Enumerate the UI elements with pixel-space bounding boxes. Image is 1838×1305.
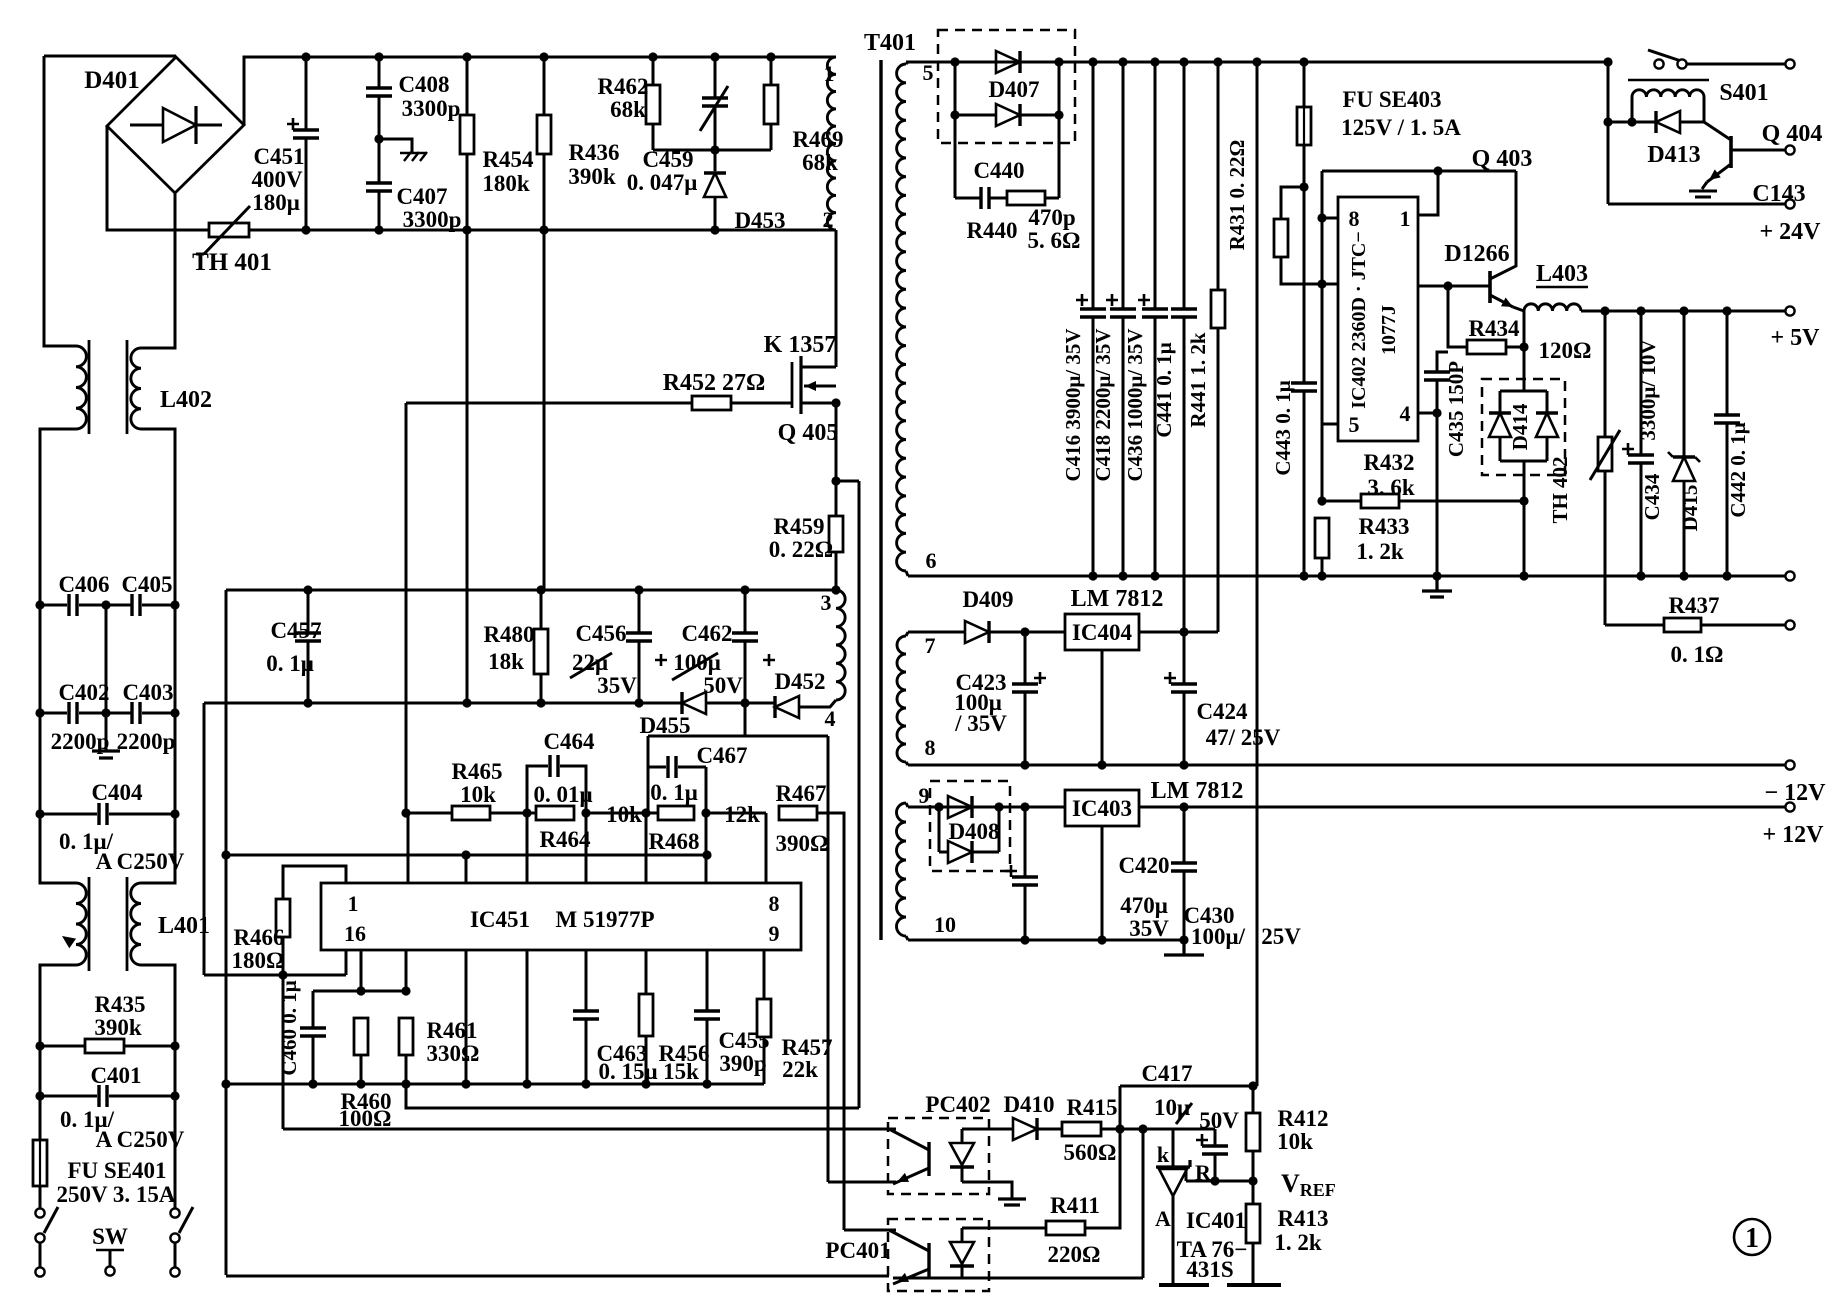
wire C420 lower lead [1024,885,1027,940]
wire R480 bottom lead [540,674,543,703]
svg-text:0. 047μ: 0. 047μ [627,170,698,195]
svg-text:SW: SW [92,1224,128,1249]
wire bus above IC451 [226,854,707,857]
svg-text:C460 0. 1μ: C460 0. 1μ [277,980,301,1075]
resistor R462 [646,85,660,124]
wire R454 node down to D455 bus [466,230,469,703]
svg-text:125V / 1. 5A: 125V / 1. 5A [1341,115,1461,140]
junction pin1 at B+ line [1433,166,1442,175]
junction C456 top [634,585,643,594]
wire to PC401 collector [844,1229,896,1232]
diode D409 [965,621,989,643]
led PC401 anode lead [961,1228,964,1242]
wire R464 to R468 [586,812,658,815]
plus sign C420 [1005,865,1017,877]
terminal Q404 base C143 [1785,145,1794,154]
wire C404 row b [109,813,175,816]
wire IC404 out [1139,631,1218,634]
chassis ground Q404 emitter [1689,182,1717,197]
svg-text:D452: D452 [774,669,825,694]
wire C402 row c [142,712,175,715]
svg-text:R454: R454 [482,147,534,172]
resistor R461 [399,1018,413,1055]
svg-text:431S: 431S [1186,1257,1233,1282]
wire inside bridge diode lead left [130,124,163,127]
plus sign C416 [1076,294,1088,306]
wire left rail R435-C401 [39,1046,42,1096]
capacitor C451 [293,130,319,138]
capacitor C416 [1080,309,1106,317]
svg-text:1: 1 [1400,206,1411,231]
wire C417 lower lead [1214,1154,1217,1181]
wire mid down [105,605,108,713]
junction lower bus x406 [401,1079,410,1088]
wire PC402 collector diagonal [889,1129,929,1150]
svg-text:R459: R459 [773,514,824,539]
wire R467 left lead to IC pin [765,813,768,883]
svg-text:D401: D401 [84,67,140,94]
junction C401 left [35,1091,44,1100]
svg-text:100Ω: 100Ω [339,1106,392,1131]
wire pin stub down 466 [465,950,468,1084]
zener D415 bar ticks [1668,452,1700,462]
junction C404 left [35,809,44,818]
wire C416 lower lead [1092,317,1095,576]
slash C456 [570,653,612,678]
wire C451 top lead [305,57,308,130]
inductor L403 [1524,304,1581,311]
svg-text:330Ω: 330Ω [427,1041,480,1066]
junction C403 right [170,708,179,717]
wire bottom long bus [226,1275,889,1278]
switch contact left bottom [35,1233,44,1242]
svg-text:C457: C457 [270,618,321,643]
capacitor C405 [132,594,140,616]
ground symbol near IC402 [1422,576,1452,597]
slash C462 [672,653,718,680]
svg-text:R413: R413 [1277,1206,1328,1231]
optocoupler PC401 emitter arrow [895,1273,909,1287]
junction C423 top [1020,627,1029,636]
capacitor C403 [132,702,140,724]
wire node up to C417 line [1119,1086,1122,1129]
wire C401 row b [109,1095,175,1098]
relay contact right [1677,59,1686,68]
svg-text:8: 8 [769,891,780,916]
junction C417 bottom at ref [1210,1176,1219,1185]
wire D414 entry [1523,379,1526,391]
svg-text:A C250V: A C250V [96,1127,185,1152]
svg-text:C451: C451 [253,144,304,169]
wire pin1 top loop [283,866,346,899]
wire D415 lower lead [1683,481,1686,576]
wire R441 upper lead [1217,62,1220,290]
junction cathode line [1138,1124,1147,1133]
junction C430 bottom [1179,935,1188,944]
transistor Q404 emitter arrow [1706,169,1721,184]
svg-text:8: 8 [1349,206,1360,231]
wire relay contact out [1687,63,1786,66]
wire C464 loop left [527,766,548,813]
capacitor C420 [1012,877,1038,885]
wire R465 to R464 [490,812,536,815]
junction C424 ground [1179,760,1188,769]
svg-text:3300p: 3300p [402,96,461,121]
junction lower bus x707 [702,1079,711,1088]
wire -12V bus [908,764,1786,767]
junction R436 top [539,52,548,61]
wire D453 bottom lead [714,197,717,230]
svg-text:C402: C402 [58,680,109,705]
junction R454 at lower bus [462,225,471,234]
wire D414 right upper [1546,391,1549,413]
svg-text:50V: 50V [1199,1108,1239,1133]
resistor R434 [1467,340,1506,354]
junction D408 right [994,802,1003,811]
wire C420 upper lead [1024,807,1027,877]
junction R433 ground [1317,571,1326,580]
svg-text:IC404: IC404 [1072,620,1133,645]
junction 361 top [356,986,365,995]
wire C441 lower lead [1183,317,1186,684]
svg-text:D1266: D1266 [1444,241,1509,267]
svg-text:R441 1. 2k: R441 1. 2k [1186,332,1210,427]
resistor R441 [1211,290,1225,328]
svg-text:C406: C406 [58,572,109,597]
plus sign C462 [763,654,775,666]
wire gate line down to pin row [405,403,408,813]
wire C424 lower lead [1183,692,1186,765]
diode D452 [775,696,799,718]
junction C418 top [1118,57,1127,66]
junction lower bus x586 [581,1079,590,1088]
capacitor C467 [668,756,676,778]
resistor R460 [354,1018,368,1055]
wire coil left lead [1631,97,1634,122]
svg-text:PC402: PC402 [925,1092,990,1117]
svg-text:FU SE401: FU SE401 [67,1158,166,1183]
wire D453 top lead [714,150,717,171]
wire IC403 ground pin [1101,826,1104,940]
junction lower bus x527 [522,1079,531,1088]
wire D413 row [1608,121,1656,124]
junction bus left corner [221,850,230,859]
resistor R412 [1246,1113,1260,1151]
svg-text:IC402 2360D · JTC−: IC402 2360D · JTC− [1348,231,1370,409]
svg-text:IC403: IC403 [1072,796,1132,821]
wire R461 bottom lead [405,1055,408,1084]
svg-text:5: 5 [1349,412,1360,437]
transistor Q403 base bar [1488,271,1492,303]
wire primary lower bus [306,229,836,232]
wire pin4 node to ground [1436,413,1439,576]
capacitor C456 [626,633,652,641]
svg-text:K 1357: K 1357 [764,332,837,358]
wire D414 left upper [1499,391,1502,413]
junction C416 ground [1088,571,1097,580]
svg-text:Q 403: Q 403 [1472,146,1533,172]
svg-text:C418 2200μ/ 35V: C418 2200μ/ 35V [1091,328,1115,481]
led inside PC401 [950,1242,974,1264]
fuse FUSE403 body [1297,107,1311,145]
inductor L401 core line right [126,877,129,971]
svg-text:12k: 12k [724,802,760,827]
svg-text:100μ/: 100μ/ [1191,924,1246,949]
transistor Q403 emitter arrow [1501,297,1515,311]
switch blade left [44,1207,58,1233]
junction Q405 source [831,398,840,407]
plus sign C456 [655,654,667,666]
svg-text:1: 1 [824,61,835,86]
resistor R440 [1007,191,1045,205]
svg-text:C424: C424 [1196,699,1248,724]
wire IC402 drive to Q403 base [1418,285,1490,288]
ground symbol mains filter [92,751,120,758]
wire bottom bus under PC401 [893,1277,1143,1280]
svg-text:D415: D415 [1678,485,1702,532]
junction R432 row left [1317,496,1326,505]
transformer T401 winding 5-6 [897,64,906,571]
chassis ground symbol at C408/C407 [400,152,427,161]
wire D407 right vertical [1058,62,1061,198]
mosfet Q405 arrow [805,381,816,391]
junction C417 line at R431 [1248,1081,1257,1090]
wire TH402 upper lead [1604,311,1607,437]
svg-text:LM 7812: LM 7812 [1071,586,1164,612]
junction source sense node [831,476,840,485]
resistor R457 [757,999,771,1037]
svg-text:Q 405: Q 405 [778,420,839,446]
svg-text:10k: 10k [460,782,496,807]
wire TL431 ref stub [1185,1169,1188,1181]
svg-text:C408: C408 [398,72,449,97]
wire pin stub down 646 to R456 [645,950,648,994]
junction C462 top [740,585,749,594]
svg-text:15k: 15k [663,1059,699,1084]
junction C441 top [1179,57,1188,66]
resistor R436 [537,115,551,154]
svg-text:180Ω: 180Ω [232,948,285,973]
svg-text:C405: C405 [121,572,172,597]
wire R462 bottom lead [652,124,655,150]
diode D453 [704,173,726,197]
resistor R437 [1664,618,1701,632]
junction lower bus x646 [641,1079,650,1088]
junction base node [1443,281,1452,290]
svg-text:10k: 10k [606,802,642,827]
wire D455 to C462 node [706,702,745,705]
junction D407 left [950,57,959,66]
svg-text:R462: R462 [597,74,648,99]
svg-text:A C250V: A C250V [96,849,185,874]
wire D414 right lower [1546,437,1549,461]
capacitor C407 [366,183,392,191]
wire C467 left vertical [647,736,650,813]
led PC402 anode lead [961,1129,964,1143]
junction C457 top [303,585,312,594]
wire D408 right vertical [998,807,1001,852]
junction R454 top [462,52,471,61]
thermistor TH401 body [209,223,249,237]
plus sign C451 [287,118,299,130]
transformer T401 winding 7-8 [897,636,906,762]
resistor R411 [1046,1221,1085,1235]
junction R441 top [1213,57,1222,66]
wire C455 bottom lead [706,1019,709,1084]
junction D414 ground [1519,571,1528,580]
terminal AC plug right [170,1267,179,1276]
transformer T401 winding 9-10 [897,803,907,936]
svg-text:R480: R480 [483,622,534,647]
junction D453 bottom [710,225,719,234]
plus sign C418 [1106,294,1118,306]
wire C462 node stub down [744,703,747,736]
wire R434 left lead [1448,286,1467,347]
capacitor C443 [1291,383,1317,391]
wire to PC402 collector [283,1128,896,1131]
junction R468 right [701,808,710,817]
svg-text:/ 35V: / 35V [954,711,1007,736]
wire left loop A [203,703,206,975]
svg-text:D408: D408 [948,819,999,844]
resistor R456 [639,994,653,1036]
terminal +12V [1785,802,1794,811]
junction R468 left [641,808,650,817]
svg-text:C404: C404 [91,780,143,805]
junction lower bus x313 [308,1079,317,1088]
terminal R437 sense [1785,620,1794,629]
wire node to TL431 line [1120,1128,1215,1131]
junction C420 top [1020,802,1029,811]
junction fuse node [1299,182,1308,191]
terminal AC plug left [35,1267,44,1276]
wire pin stub 706 [705,813,708,883]
junction R432 right [1519,496,1528,505]
wire relay branch down [1607,62,1610,204]
plus sign C424 [1164,672,1176,684]
wire B+ line top [1322,170,1516,173]
thermistor TH402 body [1598,437,1612,471]
svg-text:C434: C434 [1640,473,1664,520]
wire R413 lower lead [1252,1243,1255,1284]
junction C406 left [35,600,44,609]
wire R468 to R467 [706,812,766,815]
resistor R468 [658,806,694,820]
label L403 underline [1536,286,1588,288]
svg-text:C441 0. 1μ: C441 0. 1μ [1152,342,1176,437]
wire C401 row a [40,1095,97,1098]
wire pin stub 527 [526,813,529,883]
diode D414 left [1489,413,1511,437]
resistor R467 [779,806,817,820]
junction bus right end [702,850,711,859]
wire pin16 stub [345,950,348,975]
resistor R480 [534,629,548,674]
junction R435 right [170,1041,179,1050]
wire C416 upper lead [1092,62,1095,309]
diode D408 lower [948,841,972,863]
junction startup at supply line [1317,279,1326,288]
svg-text:C407: C407 [396,184,447,209]
wire +24V rail [1608,203,1786,206]
optocoupler PC402 emitter arrow [895,1173,909,1187]
wire IC402 pin4 stub [1418,412,1437,415]
capacitor C436 [1142,309,1168,317]
svg-text:10: 10 [934,912,956,937]
wire C404 row a [40,813,97,816]
ground bar TL431 anode [1159,1283,1209,1287]
junction TH402 top [1600,306,1609,315]
relay coil bar [1628,79,1709,82]
wire secondary ground bus [908,575,1786,578]
wire C467 branch left [648,766,666,769]
wire AC input top-left rail [44,55,176,58]
capacitor C406 [69,594,77,616]
wire D407 lower lead [955,114,996,117]
junction C456 bottom [634,698,643,707]
svg-text:0. 1μ: 0. 1μ [266,651,314,676]
switch blade right [179,1207,193,1233]
wire D455 bus left segment [204,702,682,705]
svg-text:1: 1 [348,891,359,916]
svg-text:IC401: IC401 [1186,1208,1246,1233]
wire pin stub down 586 to C463 [585,950,588,1011]
capacitor C462 [732,633,758,641]
plus sign C417 [1196,1134,1208,1146]
svg-text:C442 0. 1μ: C442 0. 1μ [1726,422,1750,517]
svg-text:C456: C456 [575,621,626,646]
resistor R459 [829,516,843,552]
junction C407 bottom [374,225,383,234]
wire C462 node to D452 [745,702,775,705]
wire TL431 anode lead [1172,1196,1175,1284]
wire C456 bottom lead [638,641,641,703]
wire R452 to gate [731,402,792,405]
wire D408 lower lead [939,851,948,854]
wire C442 upper lead [1726,311,1729,415]
diode D414 right [1536,413,1558,437]
svg-text:TH 401: TH 401 [192,249,272,276]
junction R480 top [536,585,545,594]
svg-text:R432: R432 [1363,450,1414,475]
capacitor C455 [694,1011,720,1019]
terminal SW [105,1266,114,1275]
capacitor C418 [1110,309,1136,317]
svg-text:100μ: 100μ [673,650,721,675]
svg-text:C436 1000μ/ 35V: C436 1000μ/ 35V [1123,328,1147,481]
wire pin stub down 707 to C455 [706,950,709,1011]
wire R436 top lead [543,57,546,115]
wire D414 bottom inner [1500,460,1547,463]
wire R454 top lead [466,57,469,115]
wire R412 upper lead [1252,1086,1255,1113]
svg-text:D414: D414 [1508,403,1532,450]
junction R480 bottom [536,698,545,707]
capacitor C464 [550,755,558,777]
svg-text:390p: 390p [719,1051,766,1076]
junction C402 left [35,708,44,717]
svg-text:C443 0. 1μ: C443 0. 1μ [1271,380,1295,475]
transformer T401 core [879,60,882,940]
wire C417 line [1120,1085,1253,1088]
mosfet Q405 gate bar [791,362,794,408]
wire R460 bottom lead [360,1055,363,1084]
svg-text:L401: L401 [158,913,210,939]
wire IC402 pin1 stub [1418,171,1438,215]
wire Q404 emitter [1707,164,1731,182]
junction C404 right [170,809,179,818]
wire PC402 emitter diagonal [893,1168,929,1184]
